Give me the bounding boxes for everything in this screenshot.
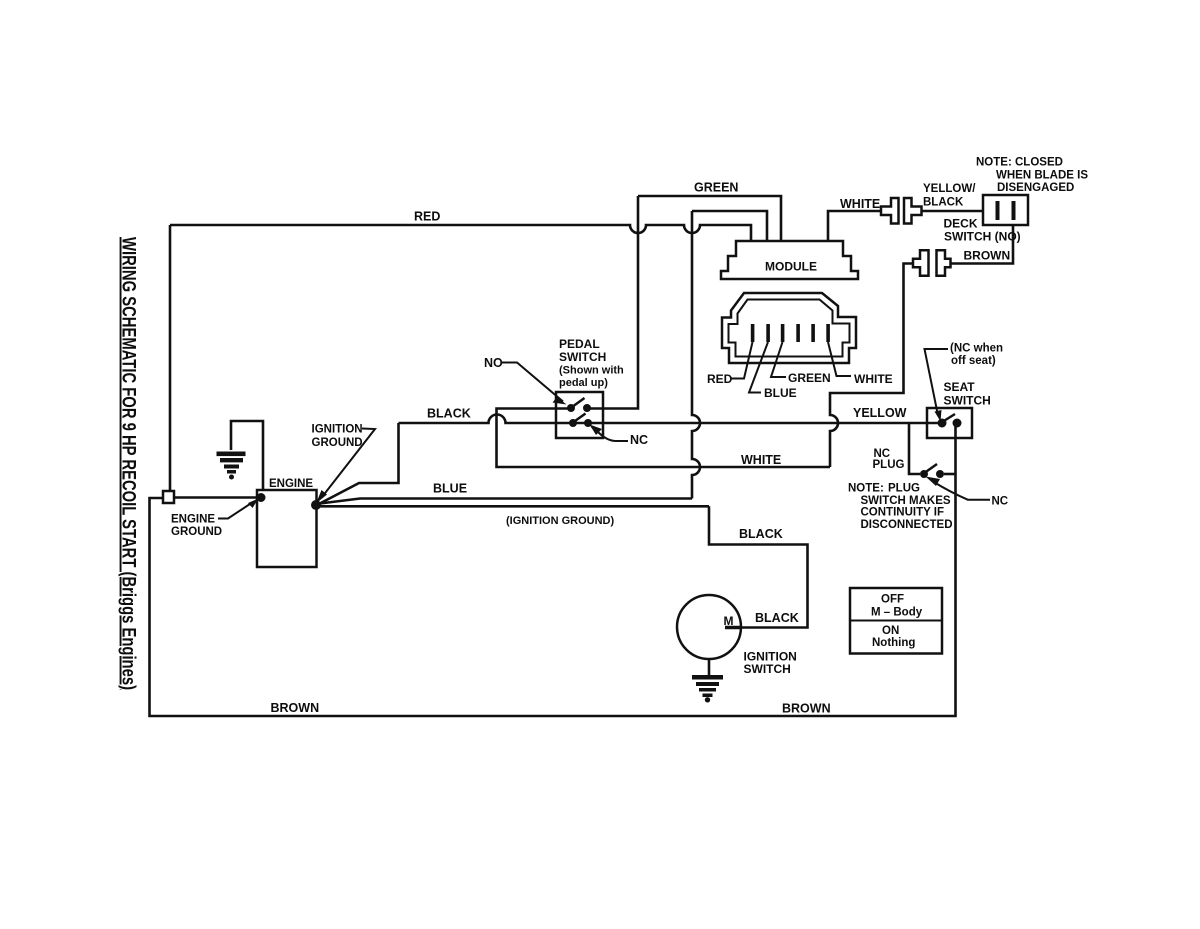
wire NC plug drop from yellow wire bbox=[909, 423, 920, 474]
svg-text:(Shown with: (Shown with bbox=[559, 365, 624, 377]
wire green riser down to pedal switch bbox=[589, 196, 638, 409]
seat switch contacts bbox=[938, 419, 947, 428]
svg-text:CLOSED: CLOSED bbox=[1015, 157, 1063, 169]
svg-text:GROUND: GROUND bbox=[171, 526, 222, 538]
svg-text:BROWN: BROWN bbox=[964, 249, 1011, 263]
svg-text:ON: ON bbox=[882, 625, 899, 637]
wire ignition ground run down-right to ignition switch M bbox=[709, 506, 808, 627]
ground symbol (ignition switch) bbox=[692, 675, 723, 703]
pedal blade NC (bottom) bbox=[575, 414, 586, 422]
svg-text:BLUE: BLUE bbox=[433, 482, 467, 496]
pin label RED with leader bbox=[731, 342, 753, 379]
ground symbol (engine) bbox=[217, 452, 246, 480]
pin label WHITE with leader bbox=[828, 342, 851, 376]
svg-text:BLUE: BLUE bbox=[764, 386, 797, 400]
wire BLUE top run into module bbox=[692, 211, 767, 241]
module body bbox=[721, 241, 858, 279]
svg-text:DECK: DECK bbox=[944, 217, 978, 231]
svg-text:SWITCH: SWITCH bbox=[559, 350, 606, 364]
wire square to engine bbox=[174, 496, 259, 499]
svg-text:off seat): off seat) bbox=[951, 355, 996, 367]
deck switch prongs bbox=[996, 201, 1016, 220]
node engine-ground junction dot bbox=[257, 493, 266, 502]
svg-text:NO: NO bbox=[484, 356, 503, 370]
svg-text:ENGINE: ENGINE bbox=[269, 478, 313, 490]
wire WHITE from module to connector pair bbox=[828, 211, 881, 241]
pin label BLUE with leader bbox=[749, 342, 768, 393]
wire engine ground hook bbox=[231, 421, 263, 489]
ignition switch circle bbox=[677, 595, 741, 659]
seat switch box bbox=[927, 408, 972, 438]
table OFF/ON bbox=[850, 588, 942, 654]
wire RED top (with crossover hops at x=638 and x=692) bbox=[170, 225, 751, 241]
pin M terminal stub bbox=[725, 626, 741, 630]
svg-text:GREEN: GREEN bbox=[694, 181, 738, 195]
wire BROWN loop: square left, down, bottom run, right riser up to seat switch bbox=[150, 424, 956, 716]
wire YELLOW/BLACK to deck switch bbox=[922, 210, 984, 213]
connector J1 (module connector) outer shell bbox=[722, 293, 856, 363]
svg-text:DISENGAGED: DISENGAGED bbox=[997, 182, 1074, 194]
wire blue riser down (hops YELLOW and WHITE) bbox=[692, 211, 700, 499]
svg-text:MODULE: MODULE bbox=[765, 260, 817, 274]
pedal switch box bbox=[556, 392, 603, 438]
svg-text:YELLOW/: YELLOW/ bbox=[923, 183, 976, 195]
svg-text:WHITE: WHITE bbox=[854, 372, 893, 386]
svg-text:BLACK: BLACK bbox=[427, 407, 471, 421]
pin label GREEN with leader bbox=[771, 342, 786, 377]
svg-text:PLUG: PLUG bbox=[888, 483, 920, 495]
pedal switch contacts bbox=[567, 404, 592, 427]
wire GREEN top bbox=[638, 196, 781, 241]
svg-text:BROWN: BROWN bbox=[271, 701, 320, 715]
svg-text:(NC when: (NC when bbox=[950, 343, 1003, 355]
connector J1 pins bbox=[751, 324, 830, 342]
svg-text:RED: RED bbox=[414, 210, 440, 224]
svg-text:PEDAL: PEDAL bbox=[559, 337, 600, 351]
svg-text:WHITE: WHITE bbox=[840, 197, 880, 211]
svg-text:WIRING SCHEMATIC FOR 9 HP RECO: WIRING SCHEMATIC FOR 9 HP RECOIL START (… bbox=[118, 237, 139, 690]
svg-text:WHEN BLADE IS: WHEN BLADE IS bbox=[996, 170, 1088, 182]
connector J1 inner shell bbox=[729, 300, 850, 357]
svg-text:GROUND: GROUND bbox=[312, 437, 363, 449]
svg-text:pedal up): pedal up) bbox=[559, 377, 608, 389]
seat switch blade bbox=[943, 414, 955, 422]
svg-text:NC: NC bbox=[992, 496, 1009, 508]
svg-text:OFF: OFF bbox=[881, 594, 904, 606]
svg-text:NOTE:: NOTE: bbox=[976, 157, 1012, 169]
connector pair (brown) bbox=[913, 250, 951, 276]
wire pedal top-left feed and WHITE wire bbox=[497, 409, 831, 468]
node ignition-ground junction dot bbox=[311, 500, 321, 510]
wire ignition switch to ground bbox=[708, 659, 711, 675]
wire NC plug to seat riser bbox=[944, 473, 956, 476]
NC plug blade bbox=[925, 464, 937, 473]
svg-text:M – Body: M – Body bbox=[871, 606, 923, 618]
svg-text:BLACK: BLACK bbox=[739, 527, 783, 541]
svg-text:BLACK: BLACK bbox=[755, 611, 799, 625]
svg-text:RED: RED bbox=[707, 372, 733, 386]
NC plug contacts bbox=[920, 470, 928, 478]
svg-text:WHITE: WHITE bbox=[741, 453, 781, 467]
wire left vertical (red riser) bbox=[169, 225, 172, 491]
svg-text:YELLOW: YELLOW bbox=[853, 406, 907, 420]
engine box bbox=[257, 490, 317, 567]
label NC (pedal) with arrow bbox=[592, 427, 629, 442]
svg-text:BROWN: BROWN bbox=[782, 702, 831, 716]
svg-text:ENGINE: ENGINE bbox=[171, 514, 215, 526]
svg-text:SWITCH (NO): SWITCH (NO) bbox=[944, 230, 1021, 244]
junction square (battery splice) bbox=[163, 491, 174, 503]
wire deck switch bottom to brown connector bbox=[951, 225, 1013, 264]
svg-text:NC: NC bbox=[630, 433, 648, 447]
svg-text:DISCONNECTED: DISCONNECTED bbox=[861, 519, 953, 531]
svg-text:PLUG: PLUG bbox=[873, 459, 905, 471]
svg-text:(IGNITION GROUND): (IGNITION GROUND) bbox=[506, 515, 614, 527]
svg-text:SEAT: SEAT bbox=[944, 380, 976, 394]
svg-text:Nothing: Nothing bbox=[872, 637, 915, 649]
svg-text:GREEN: GREEN bbox=[788, 371, 831, 385]
svg-text:CONTINUITY IF: CONTINUITY IF bbox=[861, 507, 944, 519]
connector pair (white/yellow-black bullet connectors) bbox=[881, 198, 922, 224]
wire BLACK/YELLOW main horizontal (hop over pedal riser at x=496) bbox=[399, 415, 939, 424]
svg-text:SWITCH: SWITCH bbox=[744, 662, 791, 676]
wire BLACK left riser from pedal feed down to engine node bbox=[317, 423, 399, 505]
svg-text:IGNITION: IGNITION bbox=[312, 424, 363, 436]
svg-text:M: M bbox=[724, 614, 734, 628]
svg-text:NOTE:: NOTE: bbox=[848, 483, 884, 495]
wire white run: connector down, left, down to WHITE wire (hops YELLOW) bbox=[830, 264, 913, 468]
pedal blade NO (top) bbox=[572, 398, 585, 407]
deck switch box bbox=[983, 195, 1028, 225]
svg-text:BLACK: BLACK bbox=[923, 197, 964, 209]
NC plug arrow + leader to label NC bbox=[933, 482, 990, 500]
wire (IGNITION GROUND) horizontal from engine node bbox=[317, 505, 709, 508]
wire BLUE horizontal from engine node to riser bbox=[316, 499, 692, 505]
svg-text:SWITCH MAKES: SWITCH MAKES bbox=[861, 495, 951, 507]
svg-text:SWITCH: SWITCH bbox=[944, 394, 991, 408]
